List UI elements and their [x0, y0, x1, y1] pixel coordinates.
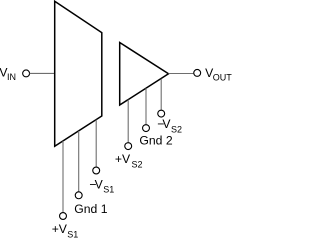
svg-text:S1: S1	[67, 229, 78, 238]
svg-text:V: V	[95, 177, 104, 191]
amplifier stage A1 (trapezoid)	[55, 1, 102, 146]
terminal circle Gnd 2	[143, 125, 150, 132]
label -VS1	[89, 177, 114, 194]
terminal circle +VS1	[60, 213, 67, 220]
wire pin +VS2	[127, 100, 129, 143]
wire A2 output to VOUT	[169, 73, 194, 75]
svg-text:S1: S1	[103, 184, 114, 194]
label +VS1	[52, 222, 79, 239]
wire pin Gnd 1	[78, 131, 80, 192]
wire pin -VS1	[95, 120, 97, 167]
wire VIN to A1 input	[30, 72, 55, 74]
label +VS2	[115, 152, 143, 169]
wire pin -VS2	[160, 79, 162, 110]
node VOUT label	[205, 66, 232, 83]
terminal circle -VS2	[158, 110, 165, 117]
terminal circle VOUT	[194, 69, 201, 76]
terminal circle +VS2	[125, 143, 132, 150]
svg-text:S2: S2	[132, 160, 143, 170]
terminal circle Gnd 1	[75, 192, 82, 199]
svg-text:Gnd 2: Gnd 2	[139, 133, 172, 147]
op-amp stage A2 (triangle)	[120, 43, 169, 106]
terminal circle VIN	[23, 70, 30, 77]
svg-text:OUT: OUT	[213, 73, 232, 83]
wire pin +VS1	[62, 141, 64, 213]
terminal circle -VS1	[93, 167, 100, 174]
svg-text:+V: +V	[52, 222, 68, 236]
svg-text:IN: IN	[7, 72, 16, 82]
node VIN label	[0, 65, 16, 82]
svg-text:Gnd 1: Gnd 1	[74, 202, 107, 216]
label -VS2	[157, 117, 182, 134]
svg-text:+V: +V	[115, 152, 131, 166]
wire pin Gnd 2	[145, 88, 147, 124]
svg-text:S2: S2	[171, 125, 182, 135]
